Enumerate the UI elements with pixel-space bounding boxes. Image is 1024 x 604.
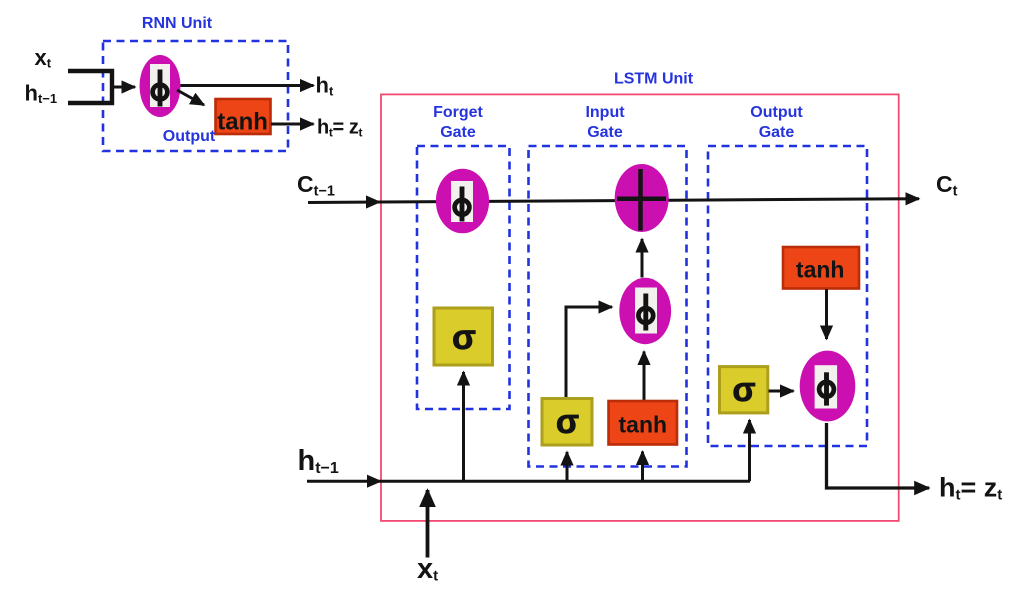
output gate dashed box xyxy=(708,146,867,446)
wire h to input tanh xyxy=(641,452,644,482)
svg-text:Forget: Forget xyxy=(433,104,483,121)
forget gate dashed box xyxy=(417,146,510,409)
input gate phi ellipse xyxy=(619,278,671,344)
input label x_t (LSTM) xyxy=(417,553,438,585)
output label h_t xyxy=(316,72,334,98)
wire phi to h_t output xyxy=(181,84,314,87)
output gate sigma box xyxy=(720,367,768,413)
input gate dashed box xyxy=(529,146,687,467)
LSTM unit outer box (pink) xyxy=(381,94,899,521)
svg-text:ht= zt: ht= zt xyxy=(317,117,362,140)
arrowhead entering LSTM box on c wire xyxy=(366,195,381,208)
wire output sigma to phi xyxy=(769,390,794,393)
RNN phi activation ellipse xyxy=(140,55,181,117)
svg-text:tanh: tanh xyxy=(796,257,845,283)
wire input sigma to phi (elbow) xyxy=(566,307,612,399)
cell state wire c xyxy=(308,199,919,203)
input label h_t-1 xyxy=(25,81,58,107)
wire h to output sigma xyxy=(748,420,751,481)
RNN Unit title xyxy=(142,15,213,32)
svg-text:xt: xt xyxy=(417,553,438,585)
input label c_t-1 xyxy=(297,171,335,200)
svg-text:tanh: tanh xyxy=(217,109,268,136)
svg-text:LSTM Unit: LSTM Unit xyxy=(614,71,694,88)
wire h to forget sigma xyxy=(462,372,465,481)
input gate tanh box xyxy=(609,401,678,445)
svg-text:Output: Output xyxy=(750,104,803,121)
svg-text:σ: σ xyxy=(732,371,755,409)
output label h_t = z_t (LSTM) xyxy=(939,473,1002,504)
RNN tanh box xyxy=(216,99,271,136)
output label h_t = z_t xyxy=(317,117,362,140)
wire tanh to output xyxy=(271,123,314,126)
wire bracket to phi xyxy=(112,86,135,89)
hidden state wire h xyxy=(307,480,750,483)
input label x_t xyxy=(35,45,52,71)
svg-text:Input: Input xyxy=(585,104,625,121)
Output Gate label xyxy=(750,104,803,141)
svg-text:Gate: Gate xyxy=(440,124,476,141)
wire input tanh to phi xyxy=(643,352,646,401)
Output label (RNN) xyxy=(163,128,216,145)
svg-text:tanh: tanh xyxy=(619,412,668,438)
forget gate sigma box xyxy=(434,308,493,365)
wire output phi to h_t output xyxy=(827,423,930,488)
svg-text:Gate: Gate xyxy=(587,124,623,141)
arrowhead entering LSTM box on h wire xyxy=(367,475,382,488)
svg-text:Output: Output xyxy=(163,128,216,145)
wire output tanh to phi xyxy=(825,289,828,339)
svg-text:Ct−1: Ct−1 xyxy=(297,171,335,200)
svg-text:ht−1: ht−1 xyxy=(298,445,339,477)
input merge bracket wire xyxy=(68,71,112,103)
svg-text:RNN Unit: RNN Unit xyxy=(142,15,213,32)
svg-text:ht= zt: ht= zt xyxy=(939,473,1002,504)
svg-text:ht: ht xyxy=(316,72,334,98)
svg-text:σ: σ xyxy=(556,403,579,441)
svg-text:xt: xt xyxy=(35,45,52,71)
output gate phi ellipse xyxy=(800,351,856,422)
forget gate phi ellipse xyxy=(436,169,489,234)
LSTM Unit title xyxy=(614,71,694,88)
svg-text:ht−1: ht−1 xyxy=(25,81,58,107)
wire phi to tanh (diagonal) xyxy=(177,90,204,105)
wire x_t input xyxy=(426,490,430,558)
output label c_t xyxy=(936,171,958,200)
output gate tanh box xyxy=(783,247,859,289)
svg-text:Ct: Ct xyxy=(936,171,958,200)
RNN unit dashed box xyxy=(103,41,288,151)
addition node ellipse (plus) xyxy=(615,164,669,232)
input label h_t-1 (LSTM) xyxy=(298,445,339,477)
input gate sigma box xyxy=(542,399,592,446)
svg-text:Gate: Gate xyxy=(759,124,795,141)
wire input phi to plus node xyxy=(641,239,644,278)
wire h to input sigma xyxy=(566,452,569,481)
svg-text:σ: σ xyxy=(452,318,476,357)
Input Gate label xyxy=(585,104,625,141)
Forget Gate label xyxy=(433,104,483,141)
